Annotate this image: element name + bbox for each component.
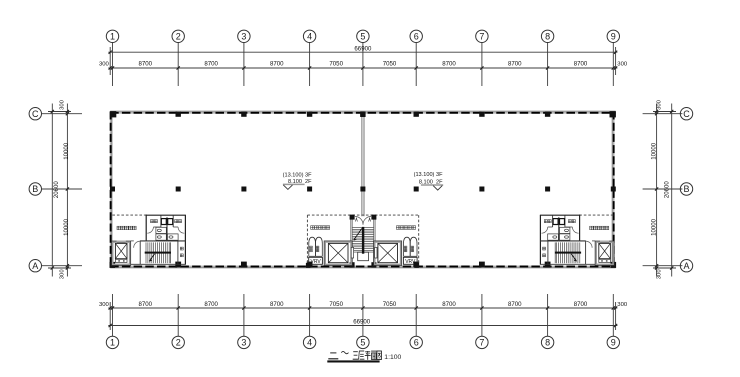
left exterior wall xyxy=(111,112,112,269)
svg-text:300: 300 xyxy=(657,269,663,280)
stair arrow xyxy=(571,254,576,261)
elevator sill box xyxy=(115,259,127,262)
toilet door arcs xyxy=(147,227,153,233)
grid bubble 3 top xyxy=(238,30,250,42)
RIGHT CORE (mirrored) xyxy=(540,215,614,266)
svg-text:8700: 8700 xyxy=(204,301,218,308)
svg-text:6: 6 xyxy=(414,338,419,348)
svg-text:8700: 8700 xyxy=(139,61,153,68)
title: floor plan name (2nd-3rd floor plan) xyxy=(328,351,381,360)
stair flight bar xyxy=(145,252,171,254)
svg-text:1: 1 xyxy=(110,32,115,42)
svg-text:8700: 8700 xyxy=(204,61,218,68)
middle waiting label left xyxy=(311,226,315,230)
LEFT CORE xyxy=(112,215,186,266)
left grid bubble C xyxy=(29,108,41,120)
electrical closets right xyxy=(404,237,418,256)
left dimension texts xyxy=(53,99,70,279)
svg-text:5: 5 xyxy=(360,338,365,348)
grid bubble 7 top xyxy=(476,30,488,42)
svg-text:A: A xyxy=(32,261,38,271)
svg-text:10000: 10000 xyxy=(63,142,70,160)
stair door arc xyxy=(586,241,593,248)
right grid bubble B xyxy=(680,183,692,195)
bottom overall dimension line 66900 xyxy=(108,324,617,327)
svg-text:8700: 8700 xyxy=(574,61,588,68)
svg-text:8700: 8700 xyxy=(442,61,456,68)
grid bubble 9 bottom xyxy=(607,336,619,348)
grid bubble 7 bottom xyxy=(476,336,488,348)
grid bubble 5 top xyxy=(357,30,369,42)
svg-text:10000: 10000 xyxy=(651,142,658,160)
toilet block walls xyxy=(131,215,186,265)
stair treads xyxy=(555,242,580,263)
middle stair arrows xyxy=(354,218,371,240)
toilet label women xyxy=(151,220,154,223)
grid bubble 5 bottom xyxy=(357,336,369,348)
svg-text:1:100: 1:100 xyxy=(384,354,401,361)
top overall dimension line 66900 xyxy=(108,51,617,54)
right grid line stubs xyxy=(643,112,683,269)
svg-text:9: 9 xyxy=(611,32,616,42)
duct shafts xyxy=(560,219,565,225)
svg-text:10000: 10000 xyxy=(651,218,658,236)
stair treads xyxy=(146,242,171,263)
elevator sill box xyxy=(599,259,611,262)
toilet label women xyxy=(572,220,575,223)
electrical closets left xyxy=(309,237,323,256)
middle elevator right xyxy=(374,241,402,266)
water shaft xyxy=(180,247,183,257)
grid bubble 4 top xyxy=(303,30,315,42)
grid bubble 8 bottom xyxy=(541,336,553,348)
bottom grid line stubs xyxy=(110,294,615,336)
left grid line stubs xyxy=(42,112,82,269)
svg-text:66900: 66900 xyxy=(353,318,371,325)
level annotation right (13.100)3F 8.100 2F xyxy=(414,172,444,190)
svg-text:300: 300 xyxy=(60,269,66,280)
bottom dimension texts xyxy=(99,301,628,308)
svg-text:7050: 7050 xyxy=(329,301,343,308)
toilet label men xyxy=(548,220,551,223)
left individual dimension line xyxy=(66,104,69,277)
svg-text:20600: 20600 xyxy=(53,181,60,199)
water shaft xyxy=(543,247,546,257)
toilet fixtures xyxy=(548,227,570,240)
top grid line stubs xyxy=(110,43,615,86)
svg-text:4: 4 xyxy=(307,338,312,348)
corner column bottom-left xyxy=(110,262,116,268)
svg-text:7050: 7050 xyxy=(383,61,397,68)
stair flight bar xyxy=(555,252,581,254)
top exterior wall xyxy=(110,111,615,113)
svg-text:9: 9 xyxy=(611,338,616,348)
svg-text:2: 2 xyxy=(176,338,181,348)
svg-text:8700: 8700 xyxy=(574,301,588,308)
right exterior wall xyxy=(612,112,614,269)
bottom wall columns xyxy=(175,262,550,268)
svg-text:300: 300 xyxy=(617,302,628,308)
svg-text:8700: 8700 xyxy=(270,301,284,308)
corner column bottom-right xyxy=(611,262,617,268)
svg-text:A: A xyxy=(683,261,689,271)
grid bubble 6 bottom xyxy=(410,336,422,348)
grid bubble 2 bottom xyxy=(172,336,184,348)
svg-text:7: 7 xyxy=(479,32,484,42)
svg-text:8700: 8700 xyxy=(270,61,284,68)
svg-text:VRV: VRV xyxy=(310,259,321,265)
stair door arc xyxy=(134,241,141,248)
svg-text:8700: 8700 xyxy=(508,301,522,308)
svg-text:5: 5 xyxy=(360,32,365,42)
grid bubble 6 top xyxy=(410,30,422,42)
grid bubble 8 top xyxy=(541,30,553,42)
svg-text:7050: 7050 xyxy=(329,61,343,68)
svg-text:2: 2 xyxy=(176,32,181,42)
corner column top-left xyxy=(110,111,116,117)
middle stair landing xyxy=(358,252,369,261)
svg-text:7: 7 xyxy=(479,338,484,348)
grid bubble 2 top xyxy=(172,30,184,42)
bottom exterior wall xyxy=(110,266,615,267)
waiting area dashed boundary xyxy=(112,214,146,216)
title underline xyxy=(327,360,379,362)
svg-text:8700: 8700 xyxy=(139,301,153,308)
middle stair columns xyxy=(350,215,377,268)
svg-text:6: 6 xyxy=(414,32,419,42)
svg-text:C: C xyxy=(683,109,690,119)
svg-text:300: 300 xyxy=(617,62,628,68)
svg-text:300: 300 xyxy=(657,99,663,110)
elevator shaft xyxy=(595,240,614,266)
grid bubble 3 bottom xyxy=(238,336,250,348)
left grid bubble A xyxy=(29,260,41,272)
level annotation left (13.100)3F 8.100 2F xyxy=(283,173,312,190)
svg-text:8700: 8700 xyxy=(442,301,456,308)
toilet fixtures xyxy=(156,227,178,240)
lobby double door arcs xyxy=(355,216,371,224)
toilet partitions xyxy=(153,215,178,241)
middle stair center bar xyxy=(362,227,364,254)
bottom individual dimension line xyxy=(108,306,617,309)
duct shafts xyxy=(161,219,166,225)
svg-text:8700: 8700 xyxy=(508,61,522,68)
middle stair treads xyxy=(352,228,373,253)
svg-text:B: B xyxy=(683,184,689,194)
middle waiting label right xyxy=(396,226,400,230)
middle core corner posts xyxy=(306,263,419,268)
VRV room left xyxy=(309,257,323,265)
elevator waiting area label xyxy=(117,226,121,230)
middle elevator left xyxy=(324,241,352,266)
svg-text:3: 3 xyxy=(241,338,246,348)
toilet partitions xyxy=(548,215,573,241)
right dimension texts xyxy=(651,99,671,279)
elevator shaft xyxy=(112,240,131,266)
svg-text:(13.100) 3F: (13.100) 3F xyxy=(414,172,443,178)
elevator cab xyxy=(115,243,127,258)
right overall dimension line 20600 xyxy=(670,104,673,277)
top individual dimension line xyxy=(108,66,617,69)
grid bubble 4 bottom xyxy=(303,336,315,348)
top wall columns at grids 2-8 xyxy=(176,112,551,117)
stair arrow xyxy=(149,254,154,261)
toilet door arcs xyxy=(572,227,578,233)
svg-text:3: 3 xyxy=(241,32,246,42)
svg-text:300: 300 xyxy=(99,302,110,308)
middle core dashed boundary xyxy=(307,215,418,265)
svg-text:(13.100) 3F: (13.100) 3F xyxy=(283,173,312,179)
corner column top-right xyxy=(610,111,616,117)
right grid bubble C xyxy=(680,108,692,120)
svg-text:66900: 66900 xyxy=(354,46,372,53)
central partition wall on grid 5 xyxy=(360,112,365,217)
VRV room right xyxy=(403,257,417,265)
svg-text:7050: 7050 xyxy=(383,301,397,308)
svg-text:B: B xyxy=(32,184,38,194)
toilet block walls xyxy=(540,215,595,265)
svg-text:10000: 10000 xyxy=(63,218,70,236)
grid bubble 1 bottom xyxy=(106,336,118,348)
svg-text:300: 300 xyxy=(99,62,110,68)
left overall dimension line 20600 xyxy=(51,104,54,277)
svg-text:20600: 20600 xyxy=(664,181,671,199)
right individual dimension line xyxy=(655,104,658,277)
grid bubble 9 top xyxy=(607,30,619,42)
toilet label men xyxy=(175,220,178,223)
svg-text:C: C xyxy=(32,109,39,119)
svg-text:8: 8 xyxy=(545,338,550,348)
stair room xyxy=(131,241,186,264)
top dimension texts xyxy=(99,61,628,68)
svg-text:300: 300 xyxy=(60,99,66,110)
grid bubble 1 top xyxy=(106,30,118,42)
interior columns row B xyxy=(110,187,616,192)
stair room xyxy=(540,241,595,264)
middle stair walls xyxy=(351,216,375,266)
waiting area dashed boundary xyxy=(580,214,614,216)
elevator waiting area label xyxy=(605,226,609,230)
svg-text:8: 8 xyxy=(545,32,550,42)
left grid bubble B xyxy=(29,183,41,195)
svg-text:4: 4 xyxy=(307,32,312,42)
svg-text:1: 1 xyxy=(110,338,115,348)
right grid bubble A xyxy=(680,260,692,272)
elevator cab xyxy=(599,243,611,258)
